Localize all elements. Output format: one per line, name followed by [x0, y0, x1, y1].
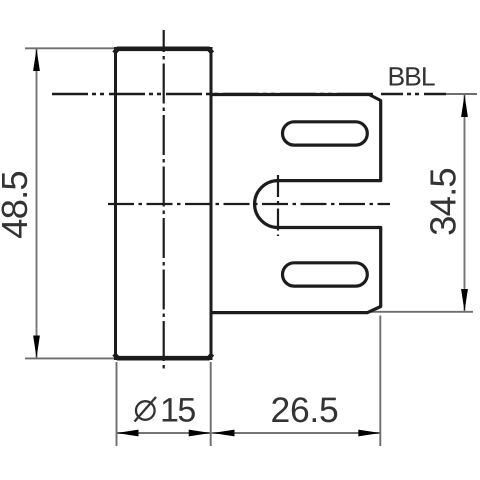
svg-text:48.5: 48.5 — [0, 171, 35, 239]
svg-text:15: 15 — [160, 392, 195, 430]
svg-text:34.5: 34.5 — [422, 168, 463, 236]
svg-text:26.5: 26.5 — [270, 390, 338, 430]
svg-text:BBL: BBL — [387, 61, 434, 91]
